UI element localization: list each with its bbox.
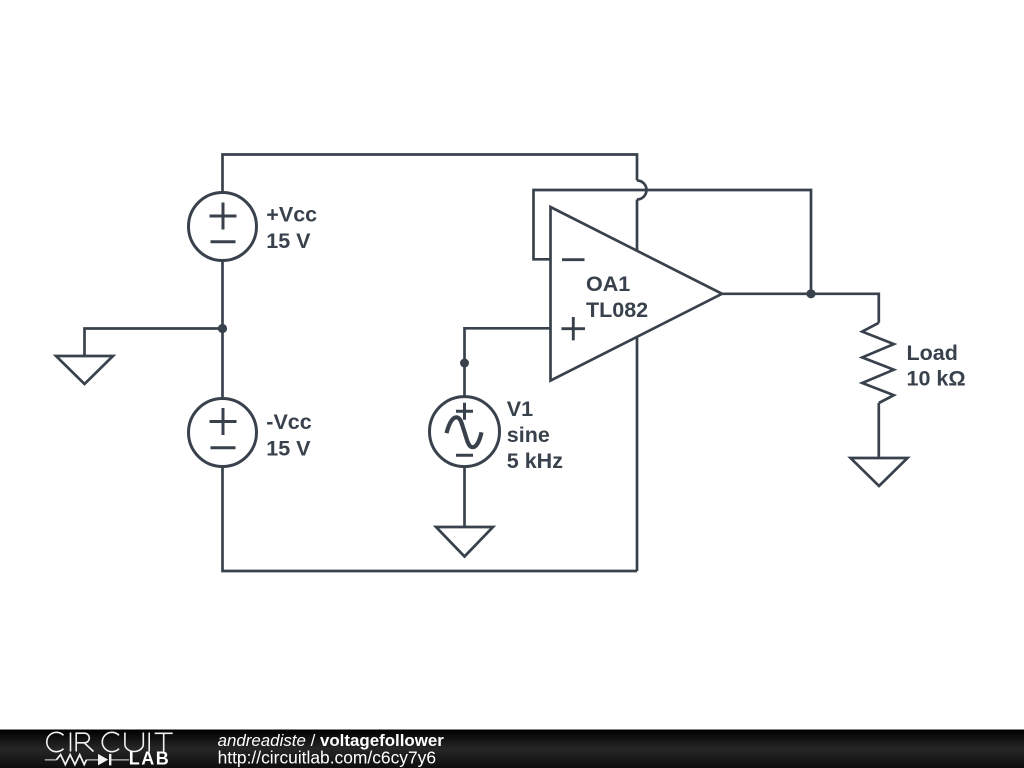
svg-text:V1: V1 [507, 397, 533, 421]
wire -Vcc top lead to node A [221, 261, 224, 399]
label V1 sine 5 kHz [507, 397, 563, 473]
svg-text:10 kΩ: 10 kΩ [907, 367, 966, 391]
wire op-amp V+ pin vertical [636, 200, 639, 293]
voltage source V1 sine [430, 397, 500, 467]
CircuitLab logo resistor-diode glyph [45, 754, 129, 766]
op-amp non-inverting input plus sign [562, 317, 586, 340]
voltage source V- (-Vcc) [189, 399, 257, 467]
voltage source V+ (+Vcc) [189, 193, 257, 261]
ground symbol GND1 left [56, 356, 113, 384]
svg-text:sine: sine [507, 423, 550, 447]
label Load 10 kOhm [907, 341, 966, 391]
svg-text:-Vcc: -Vcc [266, 410, 311, 434]
svg-text:Load: Load [907, 341, 958, 365]
CircuitLab logo wordmark CIRCUIT (thin strokes) [47, 732, 173, 751]
wire op-amp V- pin vertical down to bottom rail [636, 294, 639, 571]
svg-text:+Vcc: +Vcc [266, 203, 317, 227]
op-amp OA1 triangle [551, 207, 723, 381]
footer bar [0, 730, 1024, 768]
resistor R1 Load zigzag [862, 323, 894, 403]
wire load resistor bottom lead to ground [877, 403, 880, 458]
label +Vcc 15 V [266, 203, 317, 254]
svg-text:TL082: TL082 [586, 298, 648, 322]
svg-text:LAB: LAB [129, 748, 171, 768]
svg-text:15 V: 15 V [266, 229, 311, 253]
op-amp inverting input minus sign [562, 258, 585, 261]
wire bottom rail from op-amp V- to -Vcc [223, 467, 638, 572]
svg-text:http://circuitlab.com/c6cy7y6: http://circuitlab.com/c6cy7y6 [218, 748, 436, 768]
svg-text:OA1: OA1 [586, 272, 630, 296]
node B junction dot on V1 wire [460, 359, 469, 368]
label OA1 TL082 [586, 272, 648, 322]
node A junction dot (+Vcc/-Vcc/ground) [218, 324, 227, 333]
ground symbol GND2 under V1 [436, 527, 493, 557]
wire hop over feedback wire [637, 181, 647, 200]
wire top rail from +Vcc to op-amp V+ pin [223, 155, 638, 193]
V1 sine wave glyph [447, 417, 482, 447]
wire feedback net output to inverting input [534, 190, 812, 294]
wire non-inverting input to V1 [465, 328, 551, 396]
wire V1 bottom lead to ground [463, 467, 466, 527]
wire ground stub left from node A [85, 329, 223, 357]
svg-text:5 kHz: 5 kHz [507, 449, 563, 473]
node C output junction dot [806, 289, 815, 298]
wire output to load resistor [722, 294, 879, 323]
ground symbol GND3 under load [851, 458, 908, 486]
label -Vcc 15 V [266, 410, 311, 460]
svg-text:15 V: 15 V [266, 436, 311, 460]
